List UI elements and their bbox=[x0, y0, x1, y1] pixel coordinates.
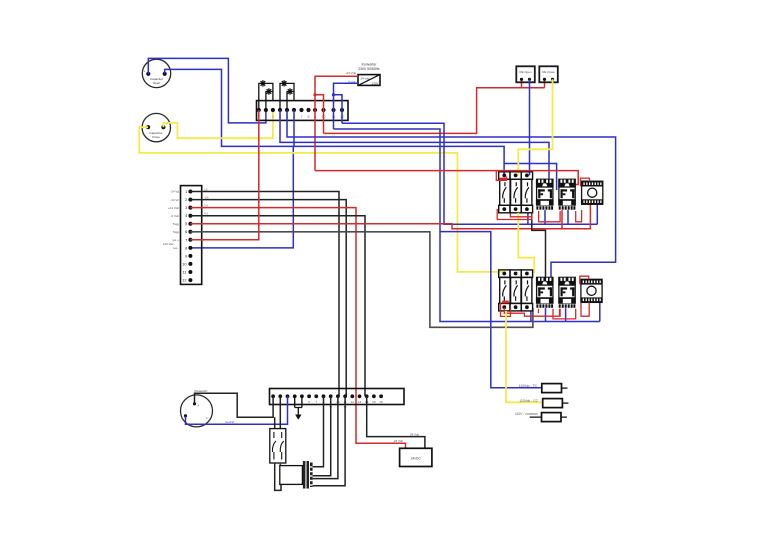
relay KA1 bbox=[582, 181, 603, 204]
svg-text:-24 Vdc: -24 Vdc bbox=[345, 71, 356, 75]
relay KA2 bbox=[581, 279, 602, 302]
svg-text:6: 6 bbox=[308, 400, 310, 404]
wire blue stubs up to K1 K2 KA1 bottoms bbox=[528, 204, 597, 224]
svg-text:16: 16 bbox=[379, 400, 383, 404]
wire red hooks under QF1 bottom bbox=[497, 209, 532, 220]
wire blue branch y163.5 to relay KA1 top bbox=[504, 164, 556, 191]
wire black T1 tap1 to X3 pin 8 bbox=[313, 396, 324, 467]
wire red hook at KA2 top-left bbox=[580, 276, 589, 284]
terminal strip X2 (12 poles left) bbox=[163, 186, 209, 285]
wire yellow QF2 bottom-left to fuse F2 110V CC bbox=[506, 311, 543, 402]
svg-text:11: 11 bbox=[183, 270, 187, 275]
svg-text:3-6: 3-6 bbox=[204, 203, 208, 207]
svg-text:Close: Close bbox=[152, 135, 160, 139]
svg-text:3: 3 bbox=[185, 205, 187, 210]
wire black stub into SW1 top-left bbox=[274, 417, 276, 428]
svg-text:110Vdc - TC: 110Vdc - TC bbox=[519, 384, 538, 388]
switch box SW1 double pole bbox=[270, 429, 286, 463]
wire blue X1 pin5 long run via x615.6 loop into contactor K3 top bbox=[287, 110, 616, 278]
svg-text:8: 8 bbox=[307, 115, 309, 119]
svg-text:6: 6 bbox=[185, 229, 187, 234]
switch S2 star contact X1 pins 2-3 bbox=[266, 88, 273, 110]
wire red converter to X1 pin 9 down to y170 bbox=[315, 76, 358, 170]
wire black X2 pin1 to X3 pin10 bbox=[190, 192, 339, 397]
wire red X2 pin3 down through X3 to 24Vdc supply PS1 bbox=[190, 208, 405, 449]
svg-text:120 Vac: 120 Vac bbox=[163, 242, 174, 246]
connector J2 Capacitor Close bbox=[142, 113, 170, 141]
wire yellow J2 right pin to X1 pin 3 bbox=[163, 110, 273, 138]
contactor K1 bbox=[536, 179, 554, 211]
svg-text:B: B bbox=[181, 416, 183, 420]
junction blue bbox=[332, 93, 335, 96]
wire yellow J2 left pin long bottom run to breaker QF2 top-left bbox=[139, 127, 505, 273]
wire red X2 pin7 up to X1 pin1 bbox=[190, 110, 258, 240]
fuse F1 110Vdc TC bbox=[519, 384, 568, 393]
switch S4 star contact X1 pins 5-6 bbox=[287, 88, 294, 110]
wire red hook at QF1 top-left bbox=[496, 171, 506, 181]
svg-text:Trigg: Trigg bbox=[172, 222, 179, 226]
wire yellow RB2 right pin to breaker QF1 top-middle bbox=[518, 79, 552, 175]
wire red branch to X1 pin 10 then down bbox=[315, 95, 324, 134]
wire black QF1 bottom-right to contactor K3 top bbox=[532, 213, 546, 278]
wire black SW1 bottom-left loop to T1 primary bottom bbox=[275, 463, 281, 490]
svg-text:9: 9 bbox=[185, 253, 187, 258]
wire yellow QF1 bottom-middle to breaker QF2 top-right bbox=[518, 213, 534, 274]
converter U1 230V/24Vdc bbox=[345, 62, 380, 85]
wire black T1 tap3 to X3 pin 10 bbox=[313, 396, 338, 478]
svg-text:neutral: neutral bbox=[225, 420, 234, 424]
contactor K4 bbox=[558, 277, 576, 309]
svg-text:4-6: 4-6 bbox=[204, 212, 208, 216]
svg-text:2: 2 bbox=[185, 197, 187, 202]
transformer T1 secondary winding bbox=[310, 463, 313, 488]
breaker QF2 bbox=[499, 270, 533, 311]
svg-text:7: 7 bbox=[315, 400, 317, 404]
connector J1 Capacitor Open bbox=[142, 59, 170, 87]
terminal block X1 (12 poles top centre) bbox=[257, 101, 349, 121]
breaker QF1 bbox=[499, 172, 533, 213]
wire black T1 tap4 to X3 pin 11 bbox=[313, 396, 346, 486]
transformer T1 core bbox=[303, 461, 306, 489]
terminal block X3 (16 poles bottom) bbox=[270, 389, 405, 409]
ground arrow under X3 pins 4-5 bbox=[295, 396, 302, 420]
transformer T1 primary bbox=[280, 466, 303, 485]
wire red stub up to contactor K2 bottom bbox=[561, 210, 563, 229]
wire blue branch y146 east to breaker QF1 top-left bbox=[293, 146, 504, 175]
svg-text:Konverter: Konverter bbox=[362, 62, 378, 66]
svg-text:110Vdc - CC: 110Vdc - CC bbox=[519, 399, 538, 403]
wire blue RB1 right pin down to breaker QF1 top-right bbox=[529, 79, 531, 175]
contactor K3 bbox=[536, 277, 554, 309]
wire blue J1 right pin long run y146 to strip X2 pin 8 bbox=[165, 69, 294, 248]
svg-text:8: 8 bbox=[185, 245, 187, 250]
svg-text:C: C bbox=[206, 416, 208, 420]
svg-text:RE Close: RE Close bbox=[542, 70, 555, 74]
fuse F3 110V common bbox=[515, 412, 567, 422]
wire blue branch y233 to fuse F1 110V TC bbox=[440, 232, 542, 388]
svg-text:+24 Vdc: +24 Vdc bbox=[168, 206, 180, 210]
connector J3 PowerAC bbox=[181, 389, 213, 427]
wire blue PowerAC pin B to X3 pin 3 neutral bbox=[186, 396, 288, 424]
contactor K2 bbox=[558, 179, 576, 211]
svg-text:+: + bbox=[144, 69, 146, 73]
svg-text:230V 50/60Hz: 230V 50/60Hz bbox=[358, 67, 380, 71]
svg-text:Trigg: Trigg bbox=[172, 230, 179, 234]
wire gray X2 pin6 big loop to breaker QF2 bottom-right bbox=[190, 232, 533, 327]
svg-text:-24 Vc: -24 Vc bbox=[170, 198, 179, 202]
wire blue J1 left pin to X1 pin 2 bbox=[148, 58, 266, 123]
red marker bar at QF2 bottom-left bbox=[502, 301, 509, 304]
wire red cluster under group2 bbox=[501, 303, 511, 316]
wire blue X1 pin12 run right, down x444, group1 bottom bus bbox=[342, 123, 597, 224]
svg-text:res -: res - bbox=[173, 246, 179, 250]
svg-text:3: 3 bbox=[272, 115, 274, 119]
svg-text:C6: C6 bbox=[204, 187, 208, 191]
relay box RB1 RE Open bbox=[516, 66, 535, 82]
wire red X2 pin5 long run to relay KA1 bottom bbox=[190, 204, 590, 228]
wire blue stubs group2 bus up bbox=[531, 303, 600, 322]
svg-text:A: A bbox=[198, 403, 200, 407]
wire blue X1 pin4 run to contactor K1 top bbox=[280, 110, 549, 179]
wire red stubs into RB1 RB2 left pins bbox=[522, 79, 545, 87]
svg-text:15: 15 bbox=[372, 400, 376, 404]
wire black X3 pin2 down to switch box SW1 bbox=[279, 396, 281, 428]
svg-text:110V - common: 110V - common bbox=[515, 412, 538, 416]
svg-text:RE Open: RE Open bbox=[520, 70, 532, 74]
svg-text:24 Vdc: 24 Vdc bbox=[361, 77, 371, 81]
switch S1 star contact X1 pins 1-3 bbox=[259, 80, 273, 110]
fuse F2 110Vdc CC bbox=[519, 399, 568, 408]
svg-text:-D6: -D6 bbox=[204, 195, 209, 199]
relay box RB2 RE Close bbox=[539, 66, 558, 82]
switch S3 star contact X1 pins 4-6 bbox=[280, 80, 294, 110]
wire blue branch to X1 pin 12 then down bbox=[334, 95, 343, 124]
junction red bbox=[313, 93, 316, 96]
wire blue converter to X1 pin 11 down bbox=[334, 83, 359, 129]
svg-text:2: 2 bbox=[265, 115, 267, 119]
svg-text:5: 5 bbox=[185, 221, 187, 226]
svg-text:-24 Vdc: -24 Vdc bbox=[393, 439, 404, 443]
wire red hook at KA1 top-left bbox=[581, 178, 590, 186]
wire blue SW1 bottom-right to transformer T1 primary bbox=[279, 463, 281, 466]
power supply PS1 24Vdc bbox=[400, 448, 432, 466]
svg-text:13: 13 bbox=[358, 400, 362, 404]
svg-text:12: 12 bbox=[182, 278, 186, 283]
wire black X2 pin4 to X3 pin14 bbox=[190, 216, 365, 397]
svg-text:7: 7 bbox=[185, 237, 187, 242]
svg-text:7: 7 bbox=[300, 115, 302, 119]
svg-text:24 Vdc: 24 Vdc bbox=[410, 432, 420, 436]
wire red X1 pin9 long run above QF1 to contactor K2 top bbox=[315, 171, 578, 187]
wire black PowerAC pin A to X3 pin 1 bbox=[195, 393, 274, 417]
wire blue X1 pin6 stub down to junction y146.4 bbox=[292, 110, 295, 146]
wire black X2 pin2 to X3 pin11 bbox=[190, 200, 346, 397]
svg-text:-24 Vg: -24 Vg bbox=[170, 190, 179, 194]
svg-text:24vDC: 24vDC bbox=[411, 457, 422, 461]
svg-text:1: 1 bbox=[185, 189, 187, 194]
svg-text:12: 12 bbox=[351, 400, 355, 404]
wire blue X1 pin11 run right, down x440 to group2 bus bbox=[334, 129, 600, 322]
svg-text:-0 Vdc: -0 Vdc bbox=[170, 214, 179, 218]
svg-text:PowerAC: PowerAC bbox=[194, 389, 208, 393]
svg-text:Open: Open bbox=[153, 81, 161, 85]
wire black X3 pin14 to 24Vdc supply PS1 bbox=[367, 396, 425, 448]
wire black T1 tap2 to X3 pin 9 bbox=[313, 396, 331, 475]
svg-text:230V: 230V bbox=[372, 81, 379, 85]
wire red X1 pin10 run right and up to relay boxes RB1 RB2 bbox=[324, 88, 545, 134]
